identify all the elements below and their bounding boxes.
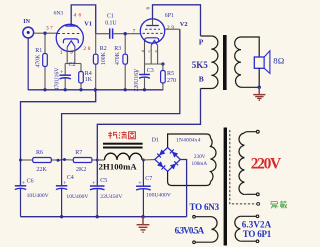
speaker 8ohm — [254, 51, 284, 88]
bridge rectifier D1 — [152, 138, 201, 172]
svg-text:R3: R3 — [114, 46, 121, 52]
svg-text:C2: C2 — [69, 62, 76, 68]
resistor R2 — [93, 34, 107, 90]
wire V2 plate to OPT P — [153, 5, 201, 36]
svg-text:5K5: 5K5 — [192, 60, 209, 70]
ground rail — [21, 216, 187, 218]
diode BL — [157, 161, 165, 169]
V2 cathode — [145, 38, 159, 42]
V1 plate bar — [65, 25, 77, 27]
svg-text:R4: R4 — [85, 71, 92, 77]
svg-text:8Ω: 8Ω — [273, 56, 284, 66]
svg-text:470K: 470K — [36, 54, 42, 68]
T2 core — [224, 128, 227, 246]
svg-text:V1: V1 — [84, 21, 92, 28]
svg-text:R2: R2 — [100, 46, 107, 52]
svg-text:270: 270 — [167, 78, 176, 84]
230V winding — [211, 138, 217, 182]
tube V1 6N3 — [54, 10, 93, 51]
resistor R7 — [65, 150, 98, 173]
svg-text:7: 7 — [133, 28, 136, 34]
capacitor C3 — [134, 64, 154, 92]
diode TL — [157, 149, 165, 157]
wire V1 cathode leads — [66, 47, 68, 64]
node R2 bottom arrow junction — [94, 88, 98, 92]
wire V2 cathode leads — [144, 42, 146, 64]
svg-text:C1: C1 — [107, 14, 114, 20]
svg-text:2K2: 2K2 — [76, 167, 86, 173]
OPT P lead — [201, 35, 212, 37]
diode BR — [170, 161, 178, 169]
svg-text:6.3V2A: 6.3V2A — [242, 220, 272, 230]
resistor R4 — [79, 64, 93, 90]
svg-text:C3: C3 — [147, 68, 154, 74]
svg-text:9: 9 — [171, 25, 174, 31]
svg-text:B: B — [199, 75, 204, 84]
node R6/R7 junction pair — [58, 158, 65, 161]
svg-text:220U16V: 220U16V — [134, 68, 140, 92]
V1 heater caret — [67, 41, 75, 47]
ground symbol PSU — [137, 217, 150, 233]
svg-text:22K: 22K — [36, 167, 47, 173]
wire C4 drop — [61, 160, 63, 186]
svg-text:C6: C6 — [27, 179, 34, 185]
svg-text:P: P — [199, 38, 204, 47]
svg-text:10U400V: 10U400V — [27, 193, 49, 199]
wire bridge bottom to 230V winding — [168, 171, 211, 185]
output transformer T1 — [192, 35, 259, 90]
svg-text:1: 1 — [60, 50, 63, 56]
shield label — [271, 201, 287, 209]
svg-text:2: 2 — [167, 25, 170, 31]
ground bus wire — [28, 89, 163, 91]
svg-text:220V: 220V — [251, 155, 282, 172]
tube V2 6P1 — [140, 13, 187, 45]
wire bridge top to 230V winding — [168, 134, 211, 148]
char 扼 — [108, 132, 112, 139]
OPT secondary leads — [241, 37, 259, 57]
capacitor C6 — [15, 179, 49, 217]
svg-text:6N3: 6N3 — [54, 10, 64, 16]
svg-text:IN: IN — [23, 19, 30, 25]
capacitor C7 — [136, 160, 171, 217]
node rail junctions — [19, 159, 22, 162]
capacitor C2 — [55, 62, 76, 90]
svg-text:100mA: 100mA — [192, 161, 208, 167]
svg-text:22U450V: 22U450V — [100, 194, 122, 200]
svg-text:C7: C7 — [145, 176, 152, 182]
svg-text:7: 7 — [50, 26, 53, 32]
resistor R3 — [114, 34, 127, 90]
wire jack ground stem — [27, 38, 29, 90]
svg-text:8: 8 — [88, 46, 91, 52]
wire V1 plate to C1 node — [71, 5, 96, 34]
svg-text:TO 6P1: TO 6P1 — [243, 229, 272, 239]
svg-text:D1: D1 — [152, 138, 159, 144]
svg-text:+: + — [22, 181, 26, 187]
svg-text:9: 9 — [70, 50, 73, 56]
svg-text:1K: 1K — [85, 77, 93, 83]
resistor R5 — [161, 64, 176, 90]
svg-text:C4: C4 — [67, 175, 74, 181]
node grid junction dot — [43, 32, 46, 35]
svg-text:C5: C5 — [100, 178, 107, 184]
wire B+ riser to C6 node — [21, 90, 96, 186]
svg-text:R1: R1 — [35, 48, 42, 54]
resistor R6 — [21, 150, 59, 173]
node C1/R3 junction — [124, 32, 127, 35]
svg-text:R5: R5 — [167, 71, 174, 77]
220V winding — [239, 133, 244, 195]
char 圈 — [129, 132, 136, 139]
svg-text:230V: 230V — [194, 154, 206, 160]
resistor R1 — [35, 33, 47, 90]
svg-text:470U16V: 470U16V — [55, 67, 61, 91]
OPT primary winding — [211, 36, 218, 89]
capacitor C1 — [96, 14, 141, 39]
OPT secondary winding — [235, 37, 241, 87]
svg-text:6: 6 — [79, 13, 82, 19]
capacitor C4 — [56, 175, 89, 217]
svg-text:100U400V: 100U400V — [146, 193, 171, 199]
6N3 heater winding — [193, 215, 196, 218]
svg-text:4: 4 — [74, 13, 77, 19]
svg-text:R7: R7 — [75, 150, 82, 156]
svg-text:R6: R6 — [36, 150, 43, 156]
V2 plate bar — [146, 25, 159, 27]
char 流 — [119, 132, 120, 138]
capacitor C5 — [90, 178, 122, 217]
wire V2 screen feed — [165, 28, 180, 30]
power transformer T2 — [175, 128, 287, 246]
svg-text:1N4004x4: 1N4004x4 — [176, 138, 201, 144]
svg-text:TO 6N3: TO 6N3 — [190, 202, 220, 212]
junction dots on bus — [43, 88, 46, 91]
OPT core — [223, 35, 227, 90]
svg-text:2: 2 — [83, 46, 86, 52]
shield dashed lead — [230, 130, 257, 204]
wire B+ line to OPT B — [97, 89, 200, 186]
svg-text:6P1: 6P1 — [165, 13, 174, 19]
svg-text:10U400V: 10U400V — [66, 194, 88, 200]
V1 grid dashed — [58, 33, 80, 35]
ground at speaker — [253, 87, 265, 100]
V2 grid dashed — [143, 32, 163, 34]
char 屏 — [271, 202, 278, 209]
wire jack to V1 grid — [34, 32, 57, 34]
6P1 heater winding — [256, 215, 259, 218]
svg-text:V2: V2 — [180, 21, 188, 28]
wire bridge right to ground rail — [180, 160, 186, 217]
input jack IN — [23, 19, 34, 38]
svg-text:0.1U: 0.1U — [105, 21, 117, 27]
svg-text:100K: 100K — [101, 51, 107, 65]
svg-text:2H100mA: 2H100mA — [99, 162, 138, 172]
svg-text:470K: 470K — [115, 51, 121, 65]
svg-text:6.3V0.5A: 6.3V0.5A — [175, 226, 205, 236]
V2 heater caret — [151, 40, 157, 45]
diode TR — [170, 149, 178, 157]
V1 cathode — [63, 39, 78, 43]
char 蔽 — [280, 201, 287, 208]
wire cathode bus — [65, 63, 81, 65]
svg-text:3: 3 — [46, 26, 49, 32]
V2 screen dashed — [145, 28, 160, 30]
OPT B lead — [201, 88, 212, 90]
choke coil — [97, 131, 155, 171]
